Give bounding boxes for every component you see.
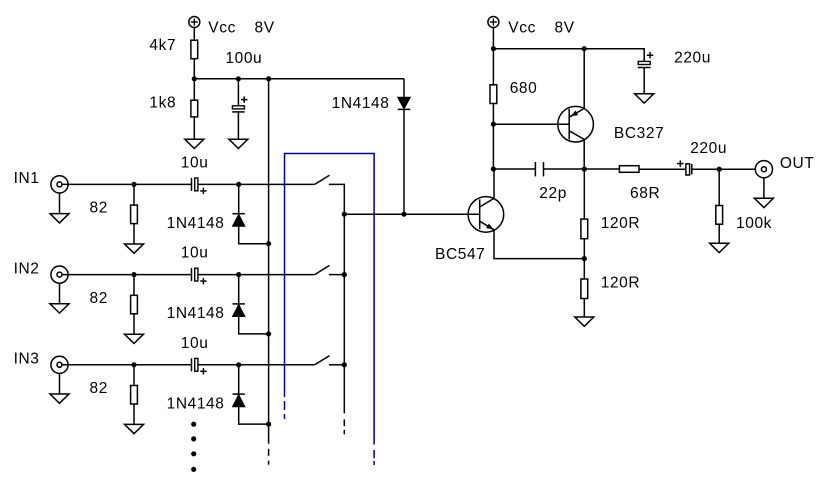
connector IN2	[51, 266, 68, 283]
ground below 220u (supply)	[635, 94, 654, 103]
wire to diode (IN2)	[238, 275, 240, 304]
svg-text:1k8: 1k8	[149, 94, 176, 111]
wire IN2 to coupling cap	[62, 274, 192, 276]
svg-text:100u: 100u	[225, 50, 262, 67]
wire 82R bottom (IN1)	[133, 224, 135, 244]
label 120R (lower)	[601, 274, 640, 291]
label Vcc (left)	[208, 19, 236, 36]
wire switch bus	[343, 214, 345, 413]
label 10u (IN1)	[181, 154, 209, 171]
svg-text:Vcc: Vcc	[208, 19, 236, 36]
svg-text:680: 680	[510, 80, 538, 97]
resistor 100k	[716, 206, 723, 225]
svg-text:82: 82	[90, 380, 108, 397]
wire 82R bottom (IN3)	[133, 404, 135, 424]
wire bias bus dash 1	[268, 449, 270, 456]
resistor 4k7	[191, 40, 198, 59]
wire output node to 68R	[584, 168, 619, 170]
wire switch bus dash 1	[343, 419, 345, 426]
ellipsis dot 1	[191, 422, 196, 427]
label 680	[510, 80, 538, 97]
ground below IN2 connector	[50, 304, 69, 313]
diode 1N4148 (clamp)	[398, 97, 411, 109]
svg-text:BC547: BC547	[435, 246, 485, 263]
capacitor 100u	[232, 96, 247, 112]
junction IN3/diode	[236, 362, 241, 367]
wire IN1 to coupling cap	[62, 183, 192, 185]
wire diode to bias bus (IN2)	[239, 317, 269, 334]
wire BC327 collector down	[583, 139, 585, 169]
wire 4k7 to bus node	[193, 59, 195, 79]
svg-text:IN2: IN2	[14, 260, 40, 277]
wire vertical bias bus	[268, 79, 270, 444]
svg-text:22p: 22p	[539, 185, 567, 202]
wire Vcc to bus (right)	[492, 27, 494, 49]
switch blade (IN2)	[315, 265, 330, 274]
svg-text:Vcc: Vcc	[508, 19, 536, 36]
wire 220u to OUT	[692, 168, 762, 170]
svg-text:220u: 220u	[674, 50, 711, 67]
label 10u (IN3)	[181, 335, 209, 352]
wire 68R to 220u	[639, 168, 686, 170]
wire bus to 100u	[237, 79, 239, 106]
junction switch bus (IN3)	[342, 362, 347, 367]
wire node A to 22p	[493, 168, 535, 170]
wire top-left bus	[194, 78, 404, 80]
selector outline dash left 1	[284, 401, 286, 410]
label 1N4148 (IN3)	[167, 395, 225, 412]
wire 100k to ground	[718, 224, 720, 243]
ground below 82R (IN2)	[125, 334, 144, 343]
label 100u	[225, 50, 262, 67]
junction IN1/diode	[236, 182, 241, 187]
svg-text:1N4148: 1N4148	[167, 395, 225, 412]
label 82 (IN3)	[90, 380, 108, 397]
wire 100k down	[718, 169, 720, 205]
wire node A to BC327 base	[493, 123, 569, 125]
svg-text:BC327: BC327	[614, 125, 664, 142]
label 8V (right)	[555, 19, 575, 36]
ellipsis dot 3	[191, 451, 196, 456]
resistor 82 (IN1)	[131, 205, 138, 224]
switch contact (IN2)	[329, 274, 344, 276]
junction switch bus/base wire	[342, 212, 347, 217]
junction Vcc/680	[491, 46, 496, 51]
ground below 120R	[575, 317, 594, 326]
label BC547	[435, 246, 485, 263]
capacitor 220u (output)	[677, 160, 692, 175]
selector group outline (blue)	[285, 154, 375, 445]
power symbol Vcc (left)	[189, 17, 200, 28]
ellipsis dot 4	[191, 467, 196, 472]
wire 120R to ground	[583, 299, 585, 318]
junction diode/base wire	[401, 212, 406, 217]
junction node A / 22p	[491, 166, 496, 171]
wire 120R to emitter node	[583, 239, 585, 259]
svg-text:120R: 120R	[601, 215, 640, 232]
selector outline dash right 1	[373, 450, 375, 458]
svg-text:8V: 8V	[255, 19, 275, 36]
resistor 82 (IN2)	[131, 295, 138, 314]
svg-text:1N4148: 1N4148	[332, 95, 390, 112]
capacitor 220u (supply)	[638, 52, 653, 68]
label 1N4148 (IN2)	[167, 305, 225, 322]
label 22p	[539, 185, 567, 202]
wire 680 to node A	[492, 104, 494, 125]
resistor 68R	[619, 166, 639, 173]
svg-text:10u: 10u	[181, 335, 209, 352]
wire IN3 to coupling cap	[62, 364, 192, 366]
wire to diode (IN1)	[238, 184, 240, 213]
wire IN1 connector to ground	[59, 193, 61, 213]
label 100k	[736, 215, 772, 232]
junction IN1/82R	[131, 182, 136, 187]
label IN1	[14, 170, 40, 187]
wire IN2 connector to ground	[59, 284, 61, 304]
resistor 120R (lower)	[581, 279, 588, 299]
label 120R (upper)	[601, 215, 640, 232]
capacitor 10u (IN1)	[192, 178, 207, 194]
wire 220u to ground	[643, 67, 645, 94]
label 82 (IN1)	[90, 200, 108, 217]
label 10u (IN2)	[181, 245, 209, 262]
ground below IN1 connector	[50, 214, 69, 223]
svg-text:82: 82	[90, 290, 108, 307]
transistor BC327 (PNP)	[558, 106, 594, 142]
wire switch bus to BC547 base	[344, 213, 479, 215]
ground below 100u	[229, 139, 248, 148]
label IN3	[14, 351, 40, 368]
svg-text:4k7: 4k7	[149, 37, 176, 54]
diode 1N4148 (IN1)	[233, 214, 245, 227]
diode 1N4148 (IN2)	[233, 304, 245, 317]
connector IN1	[51, 176, 68, 193]
wire BC327 emitter to bus	[583, 49, 585, 109]
ground below 100k	[710, 243, 729, 252]
svg-text:100k: 100k	[736, 215, 772, 232]
wire diode to base node	[403, 110, 405, 214]
junction bias bus (IN3)	[266, 422, 271, 427]
switch blade (IN3)	[315, 356, 330, 365]
wire cap to switch (IN2)	[198, 274, 315, 276]
svg-text:10u: 10u	[181, 154, 209, 171]
wire top-right bus	[493, 49, 644, 62]
junction switch bus (IN2)	[342, 272, 347, 277]
svg-text:1N4148: 1N4148	[167, 215, 225, 232]
junction bus/vertical bus	[266, 76, 271, 81]
svg-text:220u: 220u	[690, 140, 727, 157]
wire diode to bias bus (IN1)	[239, 226, 269, 243]
label 220u (output)	[690, 140, 727, 157]
label Vcc (right)	[508, 19, 536, 36]
junction output node	[582, 166, 587, 171]
resistor 120R (upper)	[581, 219, 588, 239]
wire bus to 680	[492, 49, 494, 85]
wire IN1 82R to ground	[133, 184, 135, 205]
junction bias bus (IN1)	[266, 241, 271, 246]
resistor 680	[490, 85, 497, 104]
wire BC547 emitter down	[494, 230, 584, 259]
wire 82R bottom (IN2)	[133, 314, 135, 334]
label 82 (IN2)	[90, 290, 108, 307]
ground below 82R (IN3)	[125, 424, 144, 433]
wire bus corner to diode	[403, 79, 405, 98]
junction bus/4k7	[192, 76, 197, 81]
resistor 1k8	[191, 100, 198, 117]
ellipsis dot 2	[191, 436, 196, 441]
ground below 1k8	[185, 139, 204, 148]
wire 100u to ground	[237, 112, 239, 140]
label OUT	[780, 155, 815, 172]
wire IN3 82R to ground	[133, 365, 135, 386]
connector OUT	[755, 161, 772, 178]
wire bus to 1k8	[193, 79, 195, 100]
junction node A / BC327 base	[491, 122, 496, 127]
resistor 82 (IN3)	[131, 386, 138, 405]
junction OUT/100k	[717, 167, 722, 172]
svg-text:120R: 120R	[601, 274, 640, 291]
selector outline dash left 2	[284, 414, 286, 419]
svg-text:68R: 68R	[630, 185, 660, 202]
wire IN3 connector to ground	[59, 374, 61, 394]
wire OUT to ground	[763, 178, 765, 198]
label 4k7	[149, 37, 176, 54]
ground below 82R (IN1)	[125, 244, 144, 253]
label 1N4148 (clamp)	[332, 95, 390, 112]
wire node A to BC547 collector	[493, 169, 495, 198]
wire 1k8 to ground	[193, 117, 195, 139]
junction bias bus (IN2)	[266, 331, 271, 336]
diode 1N4148 (IN3)	[233, 394, 245, 407]
selector outline dash right 2	[373, 461, 375, 465]
transistor BC547 (NPN)	[468, 197, 504, 233]
wire Vcc to 4k7	[193, 27, 195, 40]
junction emitter node	[582, 256, 587, 261]
svg-text:10u: 10u	[181, 245, 209, 262]
wire collector to 120R	[583, 169, 585, 219]
label IN2	[14, 260, 40, 277]
switch contact and drop (IN1)	[329, 184, 344, 214]
switch blade (IN1)	[315, 175, 330, 184]
junction IN2/diode	[236, 272, 241, 277]
label 1N4148 (IN1)	[167, 215, 225, 232]
svg-text:OUT: OUT	[780, 155, 815, 172]
svg-text:1N4148: 1N4148	[167, 305, 225, 322]
label 220u (supply)	[674, 50, 711, 67]
junction bus/100u	[236, 76, 241, 81]
wire diode to bias bus (IN3)	[239, 407, 269, 424]
svg-text:8V: 8V	[555, 19, 575, 36]
wire node A down to collector	[492, 124, 494, 169]
capacitor 10u (IN2)	[192, 268, 207, 284]
junction IN2/82R	[131, 272, 136, 277]
junction IN3/82R	[131, 362, 136, 367]
label BC327	[614, 125, 664, 142]
junction bus/BC327 emitter	[582, 46, 587, 51]
power symbol Vcc (right)	[488, 17, 499, 28]
wire to diode (IN3)	[238, 365, 240, 394]
svg-text:IN1: IN1	[14, 170, 40, 187]
connector IN3	[51, 356, 68, 373]
label 1k8	[149, 94, 176, 111]
wire 22p to output node	[544, 168, 585, 170]
capacitor 10u (IN3)	[192, 358, 207, 374]
label 68R	[630, 185, 660, 202]
switch contact (IN3)	[329, 364, 344, 366]
svg-text:IN3: IN3	[14, 351, 40, 368]
wire cap to switch (IN3)	[198, 364, 315, 366]
wire switch bus dash 2	[343, 430, 345, 435]
wire IN2 82R to ground	[133, 275, 135, 296]
ground below IN3 connector	[50, 394, 69, 403]
label 8V (left)	[255, 19, 275, 36]
svg-text:82: 82	[90, 200, 108, 217]
ground below OUT	[754, 198, 773, 207]
capacitor 22p	[535, 162, 543, 176]
wire bias bus dash 2	[268, 461, 270, 465]
wire emitter node to 120R	[583, 259, 585, 279]
wire cap to switch (IN1)	[198, 183, 315, 185]
